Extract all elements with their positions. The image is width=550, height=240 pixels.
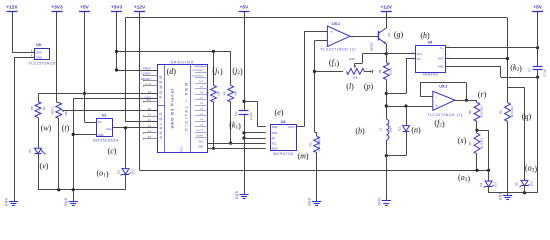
svg-text:GND: GND: [36, 56, 42, 60]
svg-text:(w): (w): [41, 124, 52, 133]
svg-text:D5: D5: [514, 182, 518, 186]
svg-text:(l): (l): [346, 82, 354, 91]
svg-text:GND: GND: [98, 133, 104, 137]
svg-text:POT1: POT1: [50, 106, 54, 114]
svg-text:TLC2272ACD: TLC2272ACD: [29, 62, 56, 66]
svg-text:R7: R7: [468, 141, 472, 145]
svg-text:(q): (q): [522, 112, 532, 121]
svg-text:VSS: VSS: [272, 131, 278, 135]
svg-text:(r): (r): [478, 90, 487, 99]
svg-text:10k: 10k: [234, 91, 238, 96]
svg-text:D12/MISO: D12/MISO: [192, 70, 203, 72]
svg-text:A1: A1: [148, 113, 152, 117]
svg-text:(v): (v): [40, 161, 49, 170]
svg-text:U3: U3: [281, 120, 286, 124]
svg-text:10k: 10k: [217, 91, 221, 96]
svg-text:Vin−: Vin−: [417, 57, 423, 61]
svg-text:U5.2: U5.2: [439, 85, 447, 89]
svg-text:GND: GND: [5, 197, 9, 206]
svg-text:SDA: SDA: [198, 146, 203, 149]
svg-text:0.1uF: 0.1uF: [543, 68, 547, 76]
svg-text:(e): (e): [275, 108, 284, 117]
svg-text:U5: U5: [36, 43, 41, 47]
svg-text:D10: D10: [199, 81, 204, 83]
svg-text:UNO R3 Pinout: UNO R3 Pinout: [171, 88, 175, 129]
svg-text:(o1): (o1): [97, 169, 109, 179]
svg-text:A0: A0: [148, 107, 152, 111]
svg-text:GND: GND: [235, 190, 239, 199]
svg-text:GND: GND: [499, 191, 503, 200]
svg-text:0.1uF: 0.1uF: [249, 112, 253, 120]
svg-text:U5.1: U5.1: [332, 22, 340, 26]
svg-text:POWER: POWER: [159, 74, 163, 99]
svg-text:AREF: AREF: [143, 66, 152, 70]
svg-text:(n): (n): [411, 126, 421, 135]
svg-text:+5V: +5V: [80, 5, 89, 11]
svg-text:GND: GND: [377, 197, 381, 206]
svg-text:D3: D3: [117, 170, 121, 174]
svg-text:(h): (h): [420, 31, 430, 40]
svg-text:A0: A0: [272, 136, 276, 140]
svg-text:4.7k (0.1k): 4.7k (0.1k): [317, 138, 321, 151]
svg-text:+5V: +5V: [240, 5, 249, 11]
svg-text:SCL: SCL: [272, 141, 278, 145]
svg-text:GND: GND: [438, 64, 444, 68]
svg-text:A2: A2: [148, 118, 152, 122]
svg-text:VDD: VDD: [272, 125, 278, 129]
svg-text:D2: D2: [28, 149, 32, 153]
svg-text:INA169: INA169: [423, 73, 438, 77]
svg-text:ARDUINO: ARDUINO: [171, 60, 195, 64]
svg-text:D4: D4: [479, 183, 483, 187]
svg-text:Vout: Vout: [106, 127, 112, 131]
svg-text:+12V: +12V: [381, 5, 393, 11]
svg-text:TLC2272ACD (2): TLC2272ACD (2): [427, 113, 463, 117]
svg-text:+3V3: +3V3: [51, 5, 63, 11]
svg-text:Vcc: Vcc: [98, 120, 103, 124]
svg-text:D1: D1: [397, 127, 401, 131]
svg-text:3V3: 3V3: [130, 169, 134, 175]
svg-text:(d): (d): [167, 67, 177, 76]
svg-text:MCP4725: MCP4725: [273, 152, 293, 156]
svg-text:(c): (c): [108, 146, 117, 155]
svg-text:+12V: +12V: [6, 5, 18, 11]
svg-text:3k (0.1k): 3k (0.1k): [480, 106, 484, 117]
svg-text:R8: R8: [468, 110, 472, 114]
svg-text:3k (0.1k): 3k (0.1k): [480, 138, 484, 149]
svg-text:R1: R1: [223, 91, 227, 95]
svg-text:SDA: SDA: [272, 147, 278, 151]
svg-text:V+: V+: [440, 46, 444, 50]
svg-text:5v: 5v: [148, 90, 152, 94]
svg-text:(k1): (k1): [229, 120, 241, 130]
svg-text:(s): (s): [458, 136, 467, 145]
svg-text:DRV5055Z4: DRV5055Z4: [93, 139, 119, 143]
svg-text:(g): (g): [394, 30, 404, 39]
svg-text:3V3: 3V3: [530, 181, 534, 187]
svg-text:I2C: I2C: [179, 146, 183, 152]
svg-text:(b): (b): [355, 127, 365, 136]
svg-text:R9: R9: [378, 69, 382, 73]
svg-text:10k: 10k: [64, 111, 68, 116]
svg-text:+5V: +5V: [533, 5, 542, 11]
svg-text:(k2): (k2): [510, 63, 522, 73]
svg-text:SCL: SCL: [199, 141, 204, 143]
svg-text:GND: GND: [64, 197, 68, 206]
svg-text:GND: GND: [308, 197, 312, 206]
svg-text:10k: 10k: [353, 76, 358, 80]
svg-text:(t): (t): [62, 124, 70, 133]
svg-text:Vin+: Vin+: [417, 52, 423, 56]
svg-text:3V3: 3V3: [494, 182, 498, 188]
svg-text:DIGITAL + PWM: DIGITAL + PWM: [185, 81, 189, 131]
svg-text:+3V3: +3V3: [111, 5, 123, 11]
svg-text:(m): (m): [297, 152, 308, 161]
svg-text:3k (0.1k): 3k (0.1k): [510, 106, 514, 117]
svg-text:C1: C1: [234, 112, 238, 116]
svg-text:R6: R6: [499, 110, 503, 114]
svg-text:R3: R3: [309, 142, 313, 146]
svg-text:U2: U2: [102, 114, 107, 118]
svg-text:(o2): (o2): [525, 163, 537, 173]
svg-text:D1/TX: D1/TX: [196, 130, 203, 132]
svg-text:L1: L1: [378, 128, 382, 132]
svg-text:1mH: 1mH: [388, 126, 392, 132]
svg-text:(p): (p): [364, 82, 374, 91]
svg-text:3k: 3k: [42, 106, 46, 110]
svg-text:TLC2272ACD (1): TLC2272ACD (1): [320, 48, 356, 52]
svg-text:R10: R10: [349, 57, 355, 61]
svg-text:R2: R2: [206, 91, 210, 95]
svg-text:A3: A3: [148, 124, 152, 128]
svg-text:(o3): (o3): [458, 173, 470, 183]
svg-text:OUT: OUT: [438, 57, 444, 61]
svg-text:VDD: VDD: [36, 50, 42, 54]
svg-text:Q1: Q1: [387, 32, 391, 36]
svg-text:VOUT: VOUT: [288, 125, 296, 129]
svg-text:C2: C2: [528, 68, 532, 72]
svg-text:BC817: BC817: [370, 42, 374, 51]
svg-text:(0.1k): (0.1k): [389, 68, 393, 75]
svg-text:+12V: +12V: [134, 5, 146, 11]
svg-text:R5: R5: [30, 106, 34, 110]
svg-text:ANALOG: ANALOG: [159, 110, 163, 138]
